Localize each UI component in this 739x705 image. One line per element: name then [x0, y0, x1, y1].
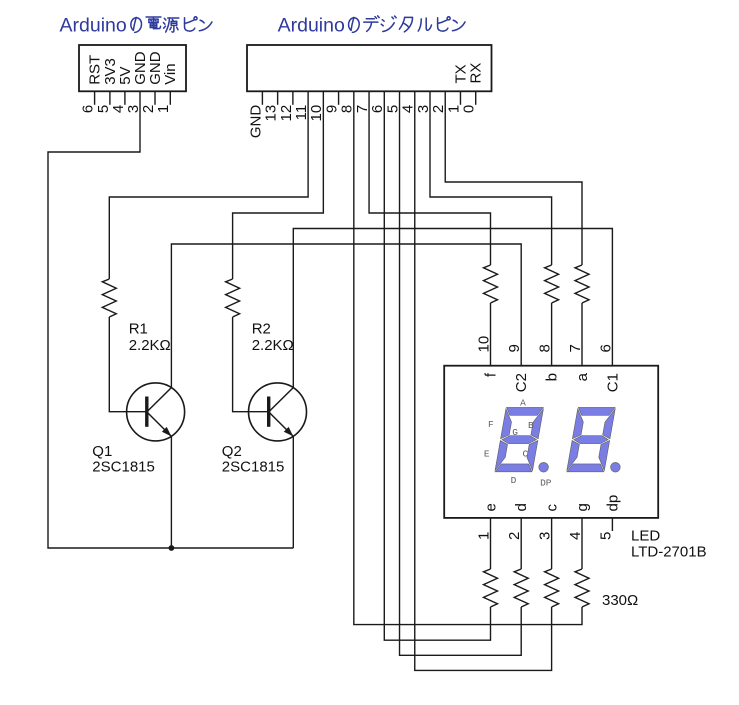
resistor b 330 ohm — [545, 265, 559, 303]
svg-text:d: d — [513, 503, 530, 511]
svg-text:LED: LED — [631, 527, 660, 544]
digital pin 13 — [277, 91, 279, 105]
svg-text:8: 8 — [537, 344, 554, 352]
transistor Q2 2SC1815 (NPN) — [249, 383, 307, 441]
svg-text:6: 6 — [597, 344, 614, 352]
svg-text:B: B — [528, 420, 534, 431]
svg-text:R2: R2 — [252, 321, 271, 338]
wire: resistor d to LED pin d — [520, 518, 522, 569]
wire: resistor f to LED pin f — [490, 303, 492, 366]
svg-text:e: e — [483, 503, 500, 511]
wire: digital pin 5 to segment d resistor — [400, 91, 522, 655]
resistor e 330 ohm — [484, 569, 498, 607]
wire: digital pin 4 to segment c resistor — [415, 91, 552, 670]
svg-text:10: 10 — [475, 336, 492, 353]
resistor R1 2.2K — [102, 279, 116, 317]
resistor R2 2.2K — [226, 279, 240, 317]
wire: digital pin 2 to segment a resistor — [445, 91, 582, 265]
svg-text:Arduino: Arduino — [60, 15, 127, 37]
svg-text:7: 7 — [567, 344, 584, 352]
svg-text:330Ω: 330Ω — [602, 592, 638, 609]
svg-text:RX: RX — [468, 63, 485, 84]
wire: digital pin 3 to segment b resistor — [430, 91, 552, 265]
svg-text:0: 0 — [461, 105, 478, 113]
svg-text:3: 3 — [537, 532, 554, 540]
svg-text:9: 9 — [506, 344, 523, 352]
resistor g 330 ohm — [575, 569, 589, 607]
wire: Q1 collector to C2 — [171, 244, 521, 388]
digital pin 0 — [475, 91, 477, 105]
svg-text:2: 2 — [506, 532, 523, 540]
svg-text:C2: C2 — [513, 373, 530, 392]
svg-text:g: g — [574, 503, 591, 511]
wire: digital pin 7 to segment f resistor — [369, 91, 490, 265]
resistor d 330 ohm — [514, 569, 528, 607]
svg-text:1: 1 — [475, 532, 492, 540]
wire: digital pin 8 to segment g resistor — [354, 91, 582, 624]
svg-text:C: C — [523, 449, 529, 460]
LED dp pin stub — [611, 518, 613, 531]
digital pin GND — [261, 91, 263, 105]
wire: Q2 emitter to ground rail — [292, 436, 294, 548]
wire: resistor c to LED pin c — [551, 518, 553, 569]
svg-text:DP: DP — [540, 478, 552, 489]
svg-text:4: 4 — [567, 532, 584, 540]
wire: resistor g to LED pin g — [581, 518, 583, 569]
svg-text:b: b — [544, 373, 561, 381]
digital pin 12 — [292, 91, 294, 105]
resistor c 330 ohm — [545, 569, 559, 607]
svg-text:Q2: Q2 — [222, 443, 242, 460]
svg-text:dp: dp — [604, 495, 621, 512]
wire: digital pin 6 to segment e resistor — [384, 91, 490, 640]
svg-text:G: G — [512, 427, 518, 438]
wire: Q1 emitter to ground rail — [170, 436, 172, 548]
svg-text:2.2KΩ: 2.2KΩ — [252, 337, 294, 354]
Arduino power pin header box — [79, 45, 186, 91]
svg-text:D: D — [511, 475, 517, 486]
7-segment digit 1 (all segments lit) — [495, 407, 544, 471]
7-segment digit 2 (all segments lit) — [567, 407, 616, 471]
junction node (Q1 emitter to rail) — [169, 545, 175, 551]
svg-text:LTD-2701B: LTD-2701B — [631, 544, 707, 561]
resistor a 330 ohm — [575, 265, 589, 303]
resistor f 330 ohm — [484, 265, 498, 303]
svg-text:2SC1815: 2SC1815 — [92, 459, 155, 476]
svg-text:a: a — [574, 372, 591, 381]
svg-text:R1: R1 — [129, 321, 148, 338]
wire: digital pin 11 to R1 — [109, 91, 308, 279]
digital pin 9 — [338, 91, 340, 105]
Arduino digital pin header box — [247, 45, 492, 91]
digital pin 1 — [459, 91, 461, 105]
wire: Q2 collector to C1 — [293, 229, 612, 388]
decimal point DP digit 2 — [611, 463, 621, 473]
svg-text:2SC1815: 2SC1815 — [222, 459, 285, 476]
wire: R1 to Q1 base — [109, 317, 147, 412]
wire: power GND to emitters ground rail — [48, 91, 293, 548]
decimal point DP digit 1 — [539, 463, 549, 473]
svg-text:A: A — [520, 398, 526, 409]
svg-text:Arduino: Arduino — [278, 15, 345, 37]
wire: R2 to Q2 base — [233, 317, 269, 412]
svg-text:5: 5 — [597, 532, 614, 540]
svg-text:Vin: Vin — [162, 63, 179, 84]
svg-text:C1: C1 — [604, 373, 621, 392]
wire: resistor a to LED pin a — [581, 303, 583, 366]
svg-text:1: 1 — [155, 105, 172, 113]
svg-text:Q1: Q1 — [92, 443, 112, 460]
wire: resistor b to LED pin b — [551, 303, 553, 366]
svg-text:F: F — [488, 419, 494, 430]
wire: digital pin 10 to R2 — [233, 91, 324, 279]
wire: resistor e to LED pin e — [490, 518, 492, 569]
LED display LTD-2701B box — [444, 366, 658, 518]
svg-text:c: c — [544, 504, 561, 512]
transistor Q1 2SC1815 (NPN) — [127, 383, 185, 441]
svg-text:E: E — [484, 449, 490, 460]
svg-text:2.2KΩ: 2.2KΩ — [129, 337, 171, 354]
